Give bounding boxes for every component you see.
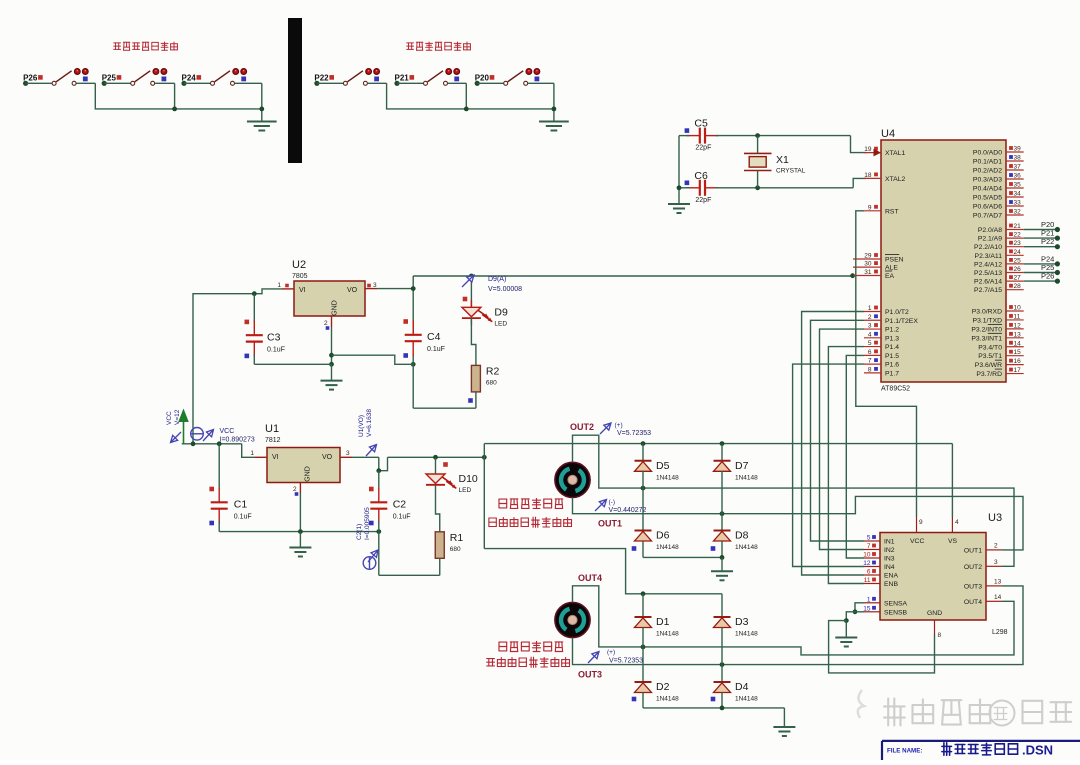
switch P20 [475,69,540,86]
pin P0.6/AD6 (33) [973,200,1024,211]
svg-text:3: 3 [346,450,350,457]
pin P3.7/RD (17) [976,367,1023,378]
pin P0.2/AD2 (37) [973,164,1024,175]
probe OUT1 (-) V=0.440272 [595,499,647,514]
pin P3.0/RXD (10) [972,305,1024,316]
pin XTAL2 (18) [864,172,905,183]
svg-text:28: 28 [1014,283,1022,290]
pin P2.4/A12 (25) [974,257,1024,268]
probe OUT2 (+) V=5.72353 [600,422,651,437]
svg-text:P1.4: P1.4 [885,344,899,351]
wire SENSA/SENSB to ground [844,603,864,638]
switch P22 [314,69,379,86]
pin PSEN (29) [853,253,904,264]
ground SENS [835,638,857,647]
svg-text:OUT1: OUT1 [964,547,982,554]
svg-text:R2: R2 [486,365,500,377]
pin U3 VS (4) [952,517,959,533]
pin U3 OUT4 (14) [964,594,1002,606]
wire left sensor group to bus [77,83,265,121]
ground U1 section [289,548,311,557]
svg-text:0.1uF: 0.1uF [267,346,285,353]
svg-text:VO: VO [347,287,358,294]
svg-text:P3.3/INT1: P3.3/INT1 [971,335,1002,342]
svg-text:P2.5/A13: P2.5/A13 [974,270,1002,277]
title block border [882,741,1080,760]
pin P3.5/T1 (15) [978,349,1024,360]
svg-text:P3.2/INT0: P3.2/INT0 [971,326,1002,333]
svg-text:1N4148: 1N4148 [735,696,758,703]
svg-text:OUT3: OUT3 [578,670,602,680]
wire R2 bottom loop [413,391,476,408]
svg-text:OUT2: OUT2 [964,564,982,571]
wire P1.0 to ENA [802,312,864,576]
wire VS vertical [951,444,953,517]
svg-text:36: 36 [1014,173,1022,180]
svg-text:1: 1 [867,596,871,603]
wire P1.2 to IN2 [820,329,865,549]
wire R1 bottom to ground rail [379,558,440,575]
pin P2.5/A13 (26) [974,266,1024,277]
svg-text:LED: LED [494,320,507,327]
pin P0.1/AD1 (38) [973,155,1024,166]
svg-text:10: 10 [863,552,871,559]
svg-text:4: 4 [868,331,872,338]
current probe at U1 input [191,428,255,444]
pin P1.5 (6) [864,349,899,360]
wire P1.1 to IN1 [811,320,865,541]
wire U2 ground rail [254,327,413,381]
svg-text:1N4148: 1N4148 [735,544,758,551]
svg-text:12: 12 [1014,322,1022,329]
pin P3.6/WR (16) [975,358,1024,369]
pin P1.7 (8) [864,366,899,377]
svg-text:39: 39 [1014,146,1022,153]
svg-text:2: 2 [868,314,872,321]
pin P1.3 (4) [864,331,899,342]
svg-text:P0.5/AD5: P0.5/AD5 [973,195,1002,202]
svg-text:680: 680 [486,379,497,386]
svg-text:10: 10 [1014,305,1022,312]
pin U3 OUT1 (2) [964,542,1002,554]
svg-text:D7: D7 [735,460,749,472]
svg-text:V=12: V=12 [174,409,181,425]
pin P2.1/A9 (22) [978,232,1024,243]
wire XTAL2 net [715,178,866,190]
pin P0.7/AD7 (32) [973,209,1024,220]
svg-text:U1: U1 [265,423,279,435]
probe C2(1) current [356,507,378,569]
svg-text:5: 5 [867,535,871,542]
pin U3 ENA (6) [864,569,898,580]
regulator U1 7812 [250,423,352,496]
pin P1.1 (2) [864,314,918,325]
svg-text:8: 8 [868,366,872,373]
svg-text:P3.7/RD: P3.7/RD [976,371,1002,378]
svg-text:CRYSTAL: CRYSTAL [776,168,806,175]
svg-text:FILE NAME:: FILE NAME: [887,748,922,755]
motor driver U3 L298 [880,512,1008,636]
svg-text:D10: D10 [459,473,478,485]
pin U3 IN3 (10) [863,552,895,563]
svg-text:12: 12 [863,560,871,567]
svg-text:P3.4/T0: P3.4/T0 [978,344,1002,351]
svg-text:P0.7/AD7: P0.7/AD7 [973,213,1002,220]
pin P2.0/A8 (21) [978,223,1024,234]
svg-text:21: 21 [1014,223,1022,230]
svg-text:U3: U3 [988,512,1002,524]
svg-text:4: 4 [955,519,959,526]
svg-text:19: 19 [864,146,872,153]
pin P0.4/AD4 (35) [973,182,1024,193]
motor M1 left wheel [555,462,590,497]
svg-text:6: 6 [868,349,872,356]
svg-text:7812: 7812 [265,437,281,444]
svg-text:D6: D6 [656,530,670,542]
svg-text:14: 14 [1014,340,1022,347]
svg-text:C5: C5 [694,118,708,130]
svg-text:.DSN: .DSN [1022,743,1053,758]
svg-text:22pF: 22pF [695,197,711,204]
svg-text:680: 680 [450,546,461,553]
svg-text:P2.4/A12: P2.4/A12 [974,261,1002,268]
svg-text:RST: RST [885,208,899,215]
pin U3 VCC (9) [917,517,924,533]
svg-text:1: 1 [868,305,872,312]
svg-text:3: 3 [994,559,998,566]
svg-text:D5: D5 [656,460,670,472]
svg-text:GND: GND [305,466,312,482]
pin XTAL1 (19) [864,146,905,157]
diode D4 [711,665,758,708]
label motor2 Chinese: right wheel motor [499,642,563,652]
svg-text:OUT3: OUT3 [964,583,982,590]
svg-text:VI: VI [299,287,306,294]
svg-text:PSEN: PSEN [885,257,904,264]
svg-text:7805: 7805 [292,273,308,280]
diode D6 [632,488,679,557]
svg-text:C3: C3 [267,331,281,343]
pin P3.3/INT1 (13) [971,331,1023,342]
svg-text:I=0.005905: I=0.005905 [364,507,371,540]
pin ALE (30) [853,261,898,272]
svg-text:P1.1/T2EX: P1.1/T2EX [885,318,918,325]
svg-text:15: 15 [1014,349,1022,356]
label front-right sensors (Chinese) [407,42,471,50]
pin U3 OUT3 (13) [964,578,1002,590]
svg-text:C6: C6 [694,170,708,182]
svg-text:1: 1 [277,282,281,289]
wire OUT1 net (motor1 bottom) [573,496,1024,550]
svg-text:P0.0/AD0: P0.0/AD0 [973,150,1002,157]
svg-text:VCC: VCC [220,428,235,435]
pin U3 OUT2 (3) [964,559,1002,571]
svg-text:6: 6 [867,569,871,576]
diode D2 [632,647,679,708]
ground motor1 diodes [711,571,733,580]
svg-text:15: 15 [863,605,871,612]
svg-text:D1: D1 [656,616,670,628]
svg-text:V=0.440272: V=0.440272 [609,507,647,514]
svg-text:0.1uF: 0.1uF [234,514,252,521]
svg-text:VCC: VCC [166,411,173,425]
pin P3.4/T0 (14) [978,340,1024,351]
wire XTAL1 net [715,133,866,152]
svg-text:P0.3/AD3: P0.3/AD3 [973,177,1002,184]
switch P24 [181,69,246,86]
svg-text:P0.6/AD6: P0.6/AD6 [973,204,1002,211]
svg-text:D3: D3 [735,616,749,628]
wire OUT3 net (motor2 bottom) [573,586,1024,667]
svg-text:U2: U2 [292,259,306,271]
wire D2/D4 ground rail [643,706,784,728]
svg-text:D8: D8 [735,530,749,542]
svg-text:OUT2: OUT2 [570,422,594,432]
svg-text:X1: X1 [776,154,789,166]
svg-text:P0.4/AD4: P0.4/AD4 [973,186,1002,193]
capacitor C3 [245,294,285,365]
svg-text:U4: U4 [881,128,895,140]
svg-text:1N4148: 1N4148 [656,544,679,551]
svg-text:V=5.72353: V=5.72353 [609,658,643,665]
wire C5/C6 left to ground [677,136,690,204]
svg-text:11: 11 [1014,313,1021,320]
svg-text:2: 2 [324,320,328,327]
LED D10 [426,457,478,532]
svg-text:18: 18 [864,172,872,179]
wires P2 port to terminals P20-P26 [1024,220,1060,284]
svg-text:25: 25 [1014,257,1022,264]
svg-text:9: 9 [919,519,923,526]
svg-text:EA: EA [885,273,895,280]
pin U3 IN1 (5) [864,535,895,546]
svg-text:ALE: ALE [885,265,898,272]
wire VCC input to U2 VI (left vertical) [193,289,282,444]
pin P1.2 (3) [864,323,899,334]
svg-text:8: 8 [938,632,942,639]
wire 12V to motor2 diode rail [484,549,722,597]
svg-text:1N4148: 1N4148 [735,631,758,638]
svg-text:AT89C52: AT89C52 [881,386,910,393]
svg-text:P3.5/T1: P3.5/T1 [978,353,1002,360]
wire OUT2 net (motor1 top) [573,435,1015,566]
svg-text:IN3: IN3 [884,556,895,563]
svg-text:23: 23 [1014,240,1022,247]
resistor R1 [435,532,444,559]
pin P1.4 (5) [864,340,899,351]
svg-text:C2: C2 [393,499,407,511]
svg-text:P0.1/AD1: P0.1/AD1 [973,159,1002,166]
regulator U2 7805 [277,259,377,330]
svg-text:SENSA: SENSA [884,600,908,607]
pin P0.5/AD5 (34) [973,191,1024,202]
svg-text:38: 38 [1014,155,1022,162]
svg-text:1N4148: 1N4148 [735,474,758,481]
capacitor C5 [700,128,705,144]
pin RST (9) [864,204,899,215]
svg-text:1N4148: 1N4148 [656,631,679,638]
svg-text:D9: D9 [494,306,508,318]
svg-text:0.1uF: 0.1uF [427,346,445,353]
pin U3 IN4 (12) [863,560,895,571]
svg-text:GND: GND [927,610,942,617]
ground motor2 diodes [773,727,795,736]
svg-text:27: 27 [1014,275,1022,282]
svg-text:P22: P22 [1041,237,1054,246]
ground crystal caps [668,204,690,213]
pin P2.7/A15 (28) [974,283,1024,294]
svg-text:16: 16 [1014,358,1022,365]
svg-text:13: 13 [1014,331,1022,338]
wire U2 output 5V node [377,276,416,408]
pin P3.1/TXD (11) [973,313,1024,324]
svg-text:0.1uF: 0.1uF [393,514,411,521]
pin U3 GND (8) [935,620,942,639]
svg-text:VCC: VCC [910,538,924,545]
svg-text:P1.7: P1.7 [885,370,899,377]
pin P2.6/A14 (27) [974,275,1024,286]
svg-text:13: 13 [994,578,1002,585]
svg-text:14: 14 [994,594,1002,601]
svg-text:32: 32 [1014,209,1022,216]
svg-text:22pF: 22pF [695,145,711,152]
svg-text:11: 11 [864,577,871,584]
svg-text:U1(VO): U1(VO) [358,415,365,437]
svg-text:ENB: ENB [884,581,898,588]
svg-text:34: 34 [1014,191,1022,198]
diode D3 [714,594,759,665]
wire P1.4 to ENB [828,347,864,584]
switch P26 [23,69,88,86]
pin U3 ENB (11) [864,577,899,588]
microcontroller U4 AT89C52 [881,128,1006,393]
watermark zhihu (gray Chinese) [858,690,1071,726]
svg-text:1: 1 [250,450,254,457]
ground U2 section [321,381,343,390]
wire right sensor group to bus [368,83,557,121]
svg-text:IN2: IN2 [884,547,895,554]
wire D6/D8 ground rail [643,555,724,571]
svg-text:D2: D2 [656,681,670,693]
svg-text:VS: VS [948,538,958,545]
svg-text:P1.3: P1.3 [885,335,899,342]
diode D5 [635,444,680,489]
svg-text:P1.0/T2: P1.0/T2 [885,309,909,316]
svg-text:OUT1: OUT1 [598,519,622,529]
pin P2.2/A10 (23) [974,240,1024,251]
svg-text:C4: C4 [427,331,441,343]
wire U1 VO 12V output [352,455,487,473]
svg-text:P2.2/A10: P2.2/A10 [974,244,1002,251]
svg-text:P26: P26 [1041,272,1054,281]
capacitor C6 [700,180,705,196]
title block file name (Chinese) .DSN [942,743,1053,758]
wire VCC to U1 VI [242,444,255,458]
label front-left sensors (Chinese) [114,42,178,50]
svg-text:VI: VI [272,454,279,461]
svg-text:P2.0/A8: P2.0/A8 [978,227,1002,234]
svg-text:P3.1/TXD: P3.1/TXD [973,317,1003,324]
svg-text:(+): (+) [607,649,615,656]
wire U1 ground rail [219,493,381,548]
svg-text:7: 7 [868,358,872,365]
probe D9(A) [462,275,522,293]
pin P3.2/INT0 (12) [971,322,1023,333]
ground right sensor group [539,122,569,131]
svg-text:D9(A): D9(A) [488,276,506,283]
pin U3 IN2 (7) [864,543,895,554]
svg-text:2: 2 [994,542,998,549]
svg-text:22: 22 [1014,232,1022,239]
pin U3 SENSA (1) [864,596,908,607]
svg-text:3: 3 [373,282,377,289]
svg-text:XTAL2: XTAL2 [885,176,905,183]
label motor1 Chinese: clockwise forward [489,517,572,527]
wire 5V rail to EA [413,273,855,278]
resistor R2 [471,365,480,392]
svg-text:31: 31 [864,269,872,276]
svg-text:1N4148: 1N4148 [656,696,679,703]
svg-text:C1: C1 [234,499,248,511]
svg-text:XTAL1: XTAL1 [885,150,905,157]
svg-text:R1: R1 [450,532,464,544]
switch P25 [102,69,167,86]
svg-text:P3.0/RXD: P3.0/RXD [972,309,1002,316]
label motor1 Chinese: left wheel motor [499,499,563,509]
svg-text:P2.7/A15: P2.7/A15 [974,287,1002,294]
wire GND pin8 net [829,621,935,673]
svg-text:37: 37 [1014,164,1022,171]
svg-text:29: 29 [864,253,872,260]
svg-text:17: 17 [1014,367,1022,374]
svg-text:V=5.00008: V=5.00008 [488,286,522,293]
black divider bar [288,18,302,163]
probe OUT3 (+) V=5.72353 [588,649,643,665]
svg-text:P1.5: P1.5 [885,353,899,360]
wire P1.6 to IN4 [793,364,864,566]
svg-text:3: 3 [868,323,872,330]
svg-text:I=0.890273: I=0.890273 [220,437,255,444]
svg-text:(+): (+) [615,422,623,429]
wire crystal leads [757,136,759,188]
ground left sensor group [247,122,277,131]
diode D8 [711,514,758,558]
svg-text:P3.6/WR: P3.6/WR [975,362,1002,369]
LED D9 [462,276,508,365]
pin P0.3/AD3 (36) [973,173,1024,184]
svg-text:LED: LED [459,487,472,494]
svg-text:P0.2/AD2: P0.2/AD2 [973,168,1002,175]
diode D1 [635,594,680,647]
svg-text:OUT4: OUT4 [578,573,602,583]
pin U3 SENSB (15) [863,605,907,616]
wire RST to L298 VCC [856,211,917,517]
pin P2.3/A11 (24) [975,249,1024,260]
svg-text:1N4148: 1N4148 [656,474,679,481]
pin P0.0/AD0 (39) [973,146,1024,157]
svg-text:VO: VO [322,454,333,461]
svg-text:(-): (-) [609,499,616,506]
wire P1.5 to IN3 [846,355,864,558]
svg-text:P2.1/A9: P2.1/A9 [978,236,1002,243]
svg-text:30: 30 [864,261,872,268]
diode D7 [714,444,759,514]
svg-text:P2.3/A11: P2.3/A11 [975,253,1003,260]
svg-text:9: 9 [868,204,872,211]
crystal X1 [744,153,806,174]
svg-text:P2.6/A14: P2.6/A14 [974,279,1002,286]
svg-text:IN1: IN1 [884,539,895,546]
